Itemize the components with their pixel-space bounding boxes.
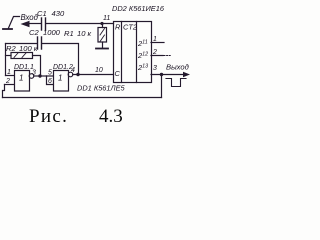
node junction R1 top [100, 22, 103, 25]
counter DD2 box [114, 22, 152, 83]
wire C2 right to DD1.2 output node [42, 44, 79, 75]
inverter bubble DD1.1 output [29, 74, 34, 79]
svg-text:213: 213 [137, 63, 148, 72]
pin 1 stub DD1.1 [6, 75, 15, 77]
pin 2 stub DD1.1 [5, 84, 15, 86]
svg-text:Рис.4.3: Рис.4.3 [29, 106, 123, 127]
svg-text:1: 1 [7, 69, 11, 76]
svg-text:CT2: CT2 [123, 23, 137, 32]
svg-text:3: 3 [32, 70, 36, 77]
svg-text:DD1.2: DD1.2 [53, 64, 73, 71]
svg-text:C: C [115, 69, 121, 78]
inverter bubble DD1.2 output [68, 72, 73, 77]
svg-text:С1430: С1430 [37, 9, 65, 18]
wire fork to pin 6 [47, 76, 54, 85]
wire input to C1 [28, 23, 41, 25]
svg-text:1: 1 [19, 74, 23, 83]
gate DD1.1 [15, 71, 30, 92]
wire node A vertical to DD1.1 pin 1 [5, 44, 7, 76]
resistor R2 [6, 53, 33, 59]
svg-text:1: 1 [58, 74, 62, 83]
svg-text:2: 2 [152, 49, 157, 56]
svg-text:Выход: Выход [166, 63, 189, 72]
svg-text:R110 к: R110 к [64, 29, 92, 38]
wire pin 4 to counter C input pin 10 [73, 74, 114, 76]
wire feedback vertical [161, 75, 163, 98]
pin 5 stub DD1.2 [47, 75, 54, 77]
node Вход arrowhead [21, 21, 30, 27]
svg-text:R: R [115, 23, 121, 32]
svg-text:5: 5 [48, 70, 52, 77]
svg-text:10: 10 [95, 67, 103, 74]
wire feedback bottom rail [3, 97, 162, 99]
svg-text:Вход: Вход [21, 13, 39, 22]
node junction C2/pin4 [76, 73, 79, 76]
gate DD1.2 [54, 71, 69, 92]
wire pin 3 to DD1.2 inputs [34, 75, 47, 77]
wire C1 to R input pin 11 [46, 23, 114, 25]
ground common bar under R1 [96, 48, 108, 50]
capacitor C2 [38, 37, 42, 49]
wire pin 3 to output [151, 74, 184, 76]
svg-text:4: 4 [71, 67, 75, 74]
svg-text:DD1 К561ЛЕ5: DD1 К561ЛЕ5 [77, 84, 126, 93]
input connector X1 [3, 17, 20, 30]
svg-text:С21000: С21000 [29, 28, 61, 37]
svg-text:DD2 К561ИЕ16: DD2 К561ИЕ16 [112, 4, 165, 13]
svg-text:211: 211 [137, 39, 148, 48]
node Выход arrowhead [183, 72, 190, 78]
svg-text:11: 11 [103, 15, 110, 22]
node junction pin3/R2 [38, 74, 41, 77]
svg-text:212: 212 [137, 51, 148, 60]
pin 2 stub output 2^12 [151, 55, 163, 57]
svg-text:2: 2 [5, 78, 10, 85]
wire DD1.1 pin2 to feedback rail [3, 85, 5, 98]
svg-text:6: 6 [48, 78, 52, 85]
svg-text:3: 3 [153, 65, 157, 72]
wire R2 right to DD1.1 output node [33, 56, 41, 77]
svg-text:DD1.1: DD1.1 [14, 64, 34, 71]
resistor R1 [98, 24, 107, 49]
capacitor C1 [42, 18, 46, 30]
svg-text:R2100 к: R2100 к [6, 44, 38, 53]
wire C2 left to node A [6, 43, 38, 45]
pin 2 dotted continuation [164, 55, 171, 57]
waveform pulse symbol [166, 79, 186, 87]
node junction output/feedback [160, 73, 163, 76]
pin 1 stub output 2^11 [151, 42, 164, 44]
svg-text:1: 1 [153, 36, 157, 43]
